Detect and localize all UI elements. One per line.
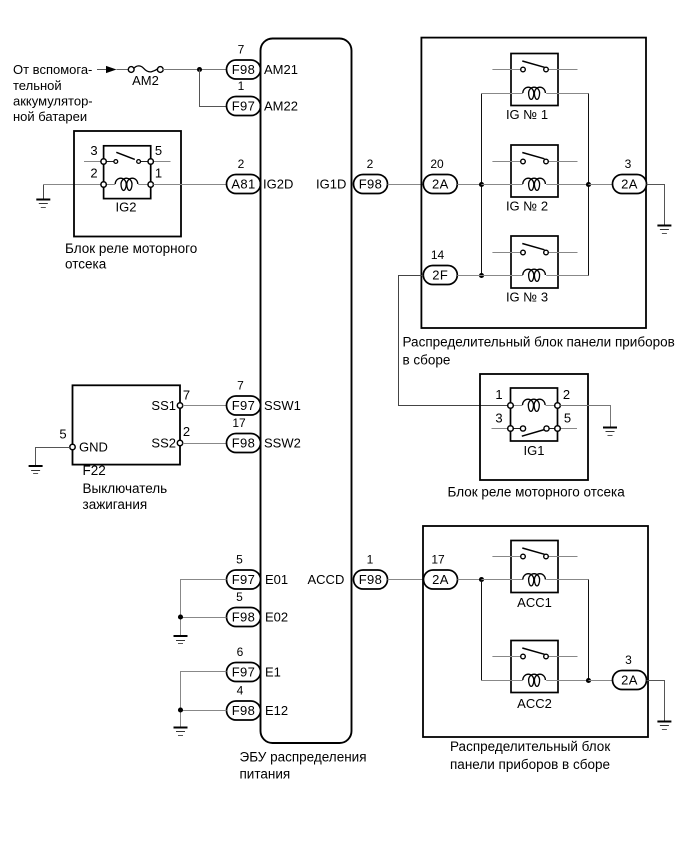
svg-text:Распределительный блок панели: Распределительный блок панели приборов — [403, 335, 675, 350]
relay ACC1 — [482, 541, 589, 611]
svg-text:F22: F22 — [83, 463, 106, 478]
switch stub wires — [492, 556, 520, 558]
connector F98 pin 5 (E02) — [227, 590, 261, 627]
svg-text:E02: E02 — [265, 610, 288, 625]
svg-text:1: 1 — [238, 79, 245, 93]
svg-text:5: 5 — [59, 427, 66, 442]
wire: SS2 to F98 — [183, 443, 227, 445]
svg-text:AM21: AM21 — [264, 62, 298, 77]
switch contacts — [521, 67, 526, 72]
wire: battery feed stub — [97, 69, 106, 71]
instrument panel junction block (top) — [421, 38, 646, 328]
svg-text:ной батареи: ной батареи — [13, 109, 87, 124]
svg-text:IG № 3: IG № 3 — [506, 290, 548, 305]
connector A81 pin 2 (IG2D) — [227, 157, 261, 194]
coil feed bus (left) — [481, 94, 483, 276]
connector 2F pin 14 — [423, 248, 457, 285]
connector F98 pin 17 (SSW2) — [227, 416, 261, 453]
switch contact lines — [106, 161, 114, 163]
connector oval F97 — [227, 396, 261, 415]
connector 2A pin 3 (top) — [613, 157, 647, 194]
coil IG No2 — [523, 178, 546, 190]
svg-text:ACCD: ACCD — [308, 572, 345, 587]
connector 2A pin 17 — [424, 553, 458, 590]
coil feed wires — [482, 275, 523, 277]
ACC coil return line — [588, 580, 590, 681]
ground (F22) — [29, 466, 43, 474]
wire: 2F to bus — [457, 275, 481, 277]
switch contacts — [521, 159, 526, 164]
switch stub wires — [492, 69, 520, 71]
svg-text:E12: E12 — [265, 703, 288, 718]
svg-text:3: 3 — [90, 143, 97, 158]
wire: F98 to 2A — [388, 184, 424, 186]
wire: arrow to fuse — [117, 69, 129, 71]
connector F98 pin 7 (AM21) — [227, 43, 261, 80]
svg-text:7: 7 — [183, 388, 190, 403]
connector F98 pin 4 (E12) — [227, 684, 261, 721]
junction dot — [586, 182, 591, 187]
wire: 2A to ground (bottom right) — [647, 681, 665, 722]
wire: E1/E12 to ground — [181, 672, 227, 728]
switch stubs — [492, 428, 508, 430]
connector oval 2A — [424, 570, 458, 589]
coil wire — [106, 184, 115, 186]
relay body box — [511, 236, 558, 288]
wire: 2A to ACC bus — [458, 579, 482, 581]
connector oval 2A — [613, 671, 647, 690]
svg-text:2A: 2A — [432, 572, 449, 587]
svg-text:1: 1 — [155, 166, 162, 181]
coil feed wires — [482, 680, 523, 682]
svg-text:E01: E01 — [265, 572, 288, 587]
svg-text:3: 3 — [625, 157, 632, 171]
svg-text:5: 5 — [236, 590, 243, 604]
svg-text:Распределительный блок: Распределительный блок — [450, 739, 610, 754]
wire: ground to relay IG2 pin 2 — [43, 184, 101, 186]
wire: relay IG2 pin 1 to A81 — [153, 184, 226, 186]
svg-text:F98: F98 — [232, 62, 256, 77]
F22 ignition switch box — [59, 385, 190, 464]
switch blade — [116, 152, 135, 159]
connector oval F98 — [227, 701, 261, 720]
ACC coil feed bus — [481, 580, 483, 681]
relay IG No2 — [482, 145, 589, 214]
svg-text:в сборе: в сборе — [403, 353, 451, 368]
svg-text:ЭБУ распределения: ЭБУ распределения — [240, 750, 367, 765]
ground (bottom right) — [657, 722, 671, 730]
svg-text:SS2: SS2 — [151, 436, 176, 451]
connector oval F98 — [227, 60, 261, 79]
wire: to 2A pin 3 — [589, 184, 613, 186]
wire: 2A to coil bus — [457, 184, 481, 186]
junction dot — [479, 273, 484, 278]
wire: IG1 pin2 to ground — [560, 406, 610, 428]
svg-text:5: 5 — [236, 553, 243, 567]
svg-text:F98: F98 — [232, 703, 256, 718]
connector oval 2A — [613, 175, 647, 194]
svg-text:IG2D: IG2D — [263, 177, 293, 192]
svg-text:E1: E1 — [265, 665, 281, 680]
svg-text:4: 4 — [237, 684, 244, 698]
svg-text:AM22: AM22 — [264, 99, 298, 114]
svg-text:IG № 2: IG № 2 — [506, 199, 548, 214]
connector oval F98 — [227, 434, 261, 453]
svg-text:1: 1 — [367, 553, 374, 567]
svg-text:ACC2: ACC2 — [517, 696, 552, 711]
svg-text:F97: F97 — [232, 665, 256, 680]
svg-text:3: 3 — [495, 411, 502, 426]
svg-text:F98: F98 — [359, 572, 383, 587]
relay ACC2 — [482, 641, 589, 712]
svg-text:2: 2 — [90, 166, 97, 181]
fuse AM2 — [128, 66, 163, 88]
svg-text:2: 2 — [183, 424, 190, 439]
svg-text:F97: F97 — [232, 398, 256, 413]
coil IG No1 — [523, 87, 546, 99]
arrow: feed direction — [106, 66, 117, 73]
instrument panel junction block (bottom) — [423, 526, 648, 737]
connector 2A pin 20 — [423, 157, 457, 194]
switch contacts — [521, 554, 526, 559]
connector oval F97 — [227, 570, 261, 589]
connector F98 pin 2 (IG1D out) — [354, 157, 388, 194]
svg-text:GND: GND — [79, 440, 108, 455]
svg-text:SSW2: SSW2 — [264, 436, 301, 451]
svg-text:2A: 2A — [621, 673, 638, 688]
svg-text:IG1: IG1 — [524, 443, 545, 458]
relay body box — [511, 54, 558, 106]
connector F97 pin 7 (SSW1) — [227, 379, 261, 416]
relay body box — [511, 145, 558, 197]
coil IG2 — [115, 178, 138, 190]
svg-text:тельной: тельной — [13, 78, 62, 93]
svg-text:SS1: SS1 — [151, 398, 176, 413]
svg-text:аккумулятор-: аккумулятор- — [13, 94, 93, 109]
relay body box — [511, 541, 558, 593]
switch contacts — [521, 654, 526, 659]
ground (top right) — [657, 226, 671, 234]
svg-text:2A: 2A — [621, 177, 638, 192]
svg-text:2F: 2F — [432, 268, 448, 283]
connector oval F98 — [227, 608, 261, 627]
svg-text:Выключатель: Выключатель — [83, 481, 168, 496]
relay IG1 — [492, 387, 578, 458]
switch blade — [522, 648, 544, 654]
power distribution ECU body — [261, 39, 352, 744]
svg-text:7: 7 — [237, 379, 244, 393]
switch stub wires — [492, 656, 520, 658]
coil feed line — [513, 405, 522, 407]
switch blade — [522, 430, 545, 437]
pin 5 stub — [153, 161, 170, 163]
connector F97 pin 1 (AM22) — [227, 79, 261, 116]
svg-text:2A: 2A — [432, 177, 449, 192]
svg-text:6: 6 — [237, 645, 244, 659]
wire: SS1 to F97 — [183, 405, 227, 407]
switch blade — [522, 244, 544, 250]
svg-text:2: 2 — [563, 387, 570, 402]
ground (IG2 relay feed) — [36, 185, 50, 208]
svg-text:От вспомога-: От вспомога- — [13, 62, 92, 77]
switch small contacts — [114, 160, 118, 164]
coil return line (right) — [588, 94, 590, 276]
svg-text:1: 1 — [495, 387, 502, 402]
source label: from auxiliary battery — [13, 62, 93, 124]
ground (E12) — [174, 728, 188, 736]
junction dot — [178, 707, 183, 712]
wire: ACCD to 2A — [388, 579, 424, 581]
svg-text:IG № 1: IG № 1 — [506, 107, 548, 122]
engine compartment relay block (IG1) — [480, 374, 588, 480]
pin 3 stub — [84, 161, 101, 163]
junction dot — [197, 67, 202, 72]
connector oval A81 — [227, 175, 261, 194]
svg-text:17: 17 — [232, 416, 246, 430]
coil IG1 — [523, 399, 546, 411]
svg-text:2: 2 — [367, 157, 374, 171]
coil IG No3 — [523, 269, 546, 281]
coil ACC2 — [523, 674, 546, 686]
relay body box — [511, 641, 558, 693]
svg-text:AM2: AM2 — [132, 73, 159, 88]
junction dot — [586, 678, 591, 683]
svg-text:отсека: отсека — [65, 257, 107, 272]
svg-text:IG1D: IG1D — [316, 177, 346, 192]
svg-text:IG2: IG2 — [116, 200, 137, 215]
svg-text:3: 3 — [625, 653, 632, 667]
svg-text:Блок реле моторного: Блок реле моторного — [65, 241, 197, 256]
connector F97 pin 6 (E1) — [227, 645, 261, 682]
junction dot — [178, 614, 183, 619]
engine compartment relay block box (IG2) — [74, 131, 181, 237]
switch stub wires — [492, 252, 520, 254]
svg-text:14: 14 — [431, 248, 445, 262]
switch contacts — [521, 250, 526, 255]
svg-text:F97: F97 — [232, 572, 256, 587]
junction dot — [479, 577, 484, 582]
svg-text:SSW1: SSW1 — [264, 398, 301, 413]
connector oval F98 — [354, 175, 388, 194]
connector F98 pin 1 (ACCD) — [354, 553, 388, 590]
switch blade — [522, 153, 544, 159]
svg-text:панели приборов в сборе: панели приборов в сборе — [450, 757, 610, 772]
pin circles — [101, 159, 106, 164]
wire: E01/E02 to ground — [181, 580, 227, 637]
wire: 2A pin3 to ground — [647, 185, 665, 226]
connector oval 2F — [423, 266, 457, 285]
ground (IG1) — [603, 428, 617, 436]
svg-text:20: 20 — [430, 157, 444, 171]
coil feed wires — [482, 93, 523, 95]
svg-text:17: 17 — [431, 553, 445, 567]
coil feed wires — [482, 579, 523, 581]
ground (E02) — [174, 636, 188, 644]
connector 2A pin 3 (bottom) — [613, 653, 647, 690]
svg-text:F97: F97 — [232, 99, 256, 114]
svg-text:Блок реле моторного отсека: Блок реле моторного отсека — [448, 485, 626, 500]
svg-text:F98: F98 — [232, 610, 256, 625]
svg-text:питания: питания — [240, 767, 291, 782]
svg-text:F98: F98 — [232, 436, 256, 451]
connector oval 2A — [423, 175, 457, 194]
wire: branch down to AM22 — [200, 70, 227, 107]
svg-text:A81: A81 — [231, 177, 255, 192]
junction dot — [479, 182, 484, 187]
switch blade — [522, 61, 544, 67]
switch contacts — [520, 426, 525, 431]
wire: GND to ground — [36, 448, 70, 467]
relay IG No1 — [482, 54, 589, 123]
coil feed wires — [482, 184, 523, 186]
svg-text:ACC1: ACC1 — [517, 595, 552, 610]
connector F97 pin 5 (E01) — [227, 553, 261, 590]
pin circles — [508, 403, 514, 409]
svg-text:F98: F98 — [359, 177, 383, 192]
svg-text:2: 2 — [238, 157, 245, 171]
switch stub wires — [492, 161, 520, 163]
wire: 2F down to IG1 coil — [399, 276, 511, 406]
svg-text:5: 5 — [155, 143, 162, 158]
connector oval F98 — [354, 570, 388, 589]
switch blade — [522, 548, 544, 554]
relay IG2 — [84, 143, 171, 215]
coil ACC1 — [523, 574, 546, 586]
relay IG No3 — [482, 236, 589, 305]
wire: fuse to ECU AM21 — [163, 69, 227, 71]
wire: to 2A pin 3 (bottom) — [589, 680, 613, 682]
connector oval F97 — [227, 663, 261, 682]
connector oval F97 — [227, 97, 261, 116]
svg-text:зажигания: зажигания — [83, 497, 148, 512]
svg-text:7: 7 — [238, 43, 245, 57]
svg-text:5: 5 — [564, 411, 571, 426]
